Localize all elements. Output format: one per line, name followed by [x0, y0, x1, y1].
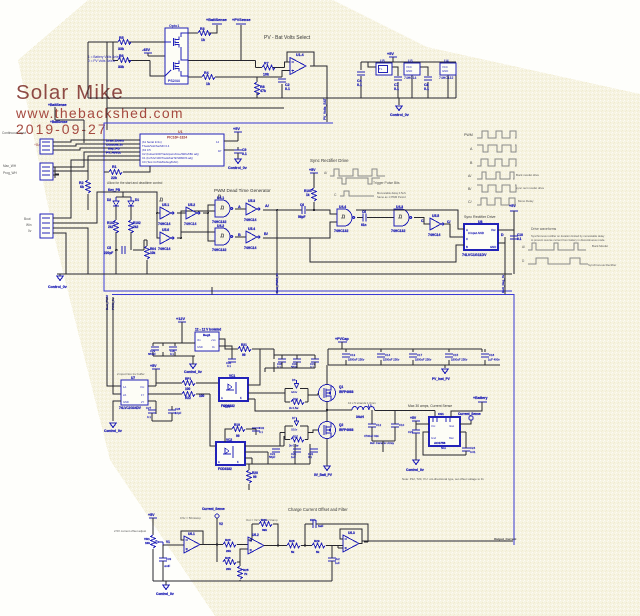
svg-text:Max 30 amps, Current Sense: Max 30 amps, Current Sense [408, 404, 452, 408]
power +5V PIC [233, 127, 242, 132]
svg-text:C6: C6 [300, 203, 304, 207]
svg-text:U6.2: U6.2 [252, 533, 259, 537]
capacitor C34 feedback [305, 518, 368, 546]
svg-text:0.1: 0.1 [357, 83, 362, 87]
capacitor C2 [278, 79, 290, 91]
svg-text:0.5v = 50m/amp: 0.5v = 50m/amp [180, 516, 201, 520]
IC Reg1 12-12V isolated [195, 328, 221, 352]
svg-text:L1: L1 [368, 404, 372, 408]
svg-text:C27: C27 [146, 406, 152, 410]
capacitor C17 [409, 353, 432, 362]
svg-text:Control_0v: Control_0v [406, 468, 424, 472]
svg-text:IRFP4668: IRFP4668 [339, 390, 354, 394]
nand U4.1 [212, 196, 233, 224]
inverter U5.3 [244, 199, 260, 222]
IC U3 74HC14 [404, 59, 420, 80]
svg-text:Control_0v: Control_0v [48, 285, 67, 289]
svg-text:C10: C10 [399, 423, 405, 427]
svg-text:A: A [218, 460, 220, 464]
junction V2 [216, 543, 218, 545]
svg-text:R5: R5 [119, 36, 124, 40]
wire R6 row [113, 42, 165, 76]
junction R105 [313, 209, 315, 211]
svg-text:U4.4: U4.4 [339, 205, 346, 209]
connector J1 [40, 139, 59, 154]
svg-text:Buck Mosfet: Buck Mosfet [592, 244, 608, 248]
power +PVCap [335, 337, 349, 349]
resistor R25 [238, 566, 249, 581]
svg-text:R7: R7 [264, 62, 269, 66]
svg-text:to prevent reverse current fro: to prevent reverse current from battery … [531, 238, 605, 242]
gate network Q2 loop [280, 426, 318, 446]
svg-text:Synchronous Rectifier: Synchronous Rectifier [588, 263, 616, 267]
resistor R3 [198, 27, 211, 42]
inverter U5.6 [158, 228, 174, 251]
svg-text:+Battery: +Battery [473, 396, 487, 400]
svg-text:U1: U1 [178, 130, 183, 134]
connector J2 [40, 163, 59, 180]
svg-text:74HC14: 74HC14 [244, 246, 257, 250]
svg-text:74HC132: 74HC132 [391, 229, 405, 233]
svg-text:V2: V2 [219, 522, 223, 526]
inverter U5.5 [428, 214, 444, 237]
svg-text:C6: C6 [362, 210, 366, 214]
svg-text:0.1: 0.1 [242, 152, 247, 156]
svg-text:10pF: 10pF [175, 411, 182, 415]
resistor R105 [304, 173, 317, 210]
svg-text:1k: 1k [306, 193, 310, 197]
label Bout Win 0v [24, 217, 32, 233]
ground Control_0v rail left [48, 276, 67, 289]
wire +5V rail [361, 57, 456, 62]
junction L1 out [326, 409, 328, 411]
svg-text:U3: U3 [408, 59, 413, 63]
svg-text:Key_PB: Key_PB [108, 188, 121, 192]
resistor R26 [223, 549, 248, 571]
wire reg to R21 [182, 339, 238, 359]
resistor R22 [182, 392, 216, 447]
wire U8 A input [356, 210, 464, 229]
waveform PWM [477, 131, 516, 138]
svg-text:U1.4: U1.4 [296, 53, 304, 57]
svg-text:C17: C17 [417, 353, 423, 357]
wire diode tops [116, 192, 131, 197]
labels left of PIC [106, 139, 124, 155]
svg-text:Current_Sense: Current_Sense [458, 412, 481, 416]
svg-text:12→12 V Isolated: 12→12 V Isolated [195, 328, 221, 332]
resistor R6 [118, 54, 131, 69]
svg-text:0.1: 0.1 [424, 87, 429, 91]
svg-text:2Y: 2Y [141, 400, 144, 404]
capacitor C8 [424, 77, 432, 91]
svg-text:B: B [466, 245, 468, 249]
svg-text:1k: 1k [206, 82, 210, 86]
svg-text:C18: C18 [489, 353, 495, 357]
schmitt mark U5.1 [159, 198, 163, 201]
svg-text:U6.3: U6.3 [348, 531, 355, 535]
wire gnd drop left [59, 274, 61, 276]
capacitor C37 [310, 359, 319, 369]
wire VC1 out to gates [248, 393, 327, 411]
svg-text:Batt_Neg_0v: Batt_Neg_0v [501, 274, 505, 293]
svg-text:U5.6: U5.6 [162, 228, 169, 232]
IC VC2 FOD3182 [216, 438, 245, 471]
wire U4.4 out to C6b [357, 213, 394, 222]
svg-text:C0 (Test CsTick/Debug/DAC): C0 (Test CsTick/Debug/DAC) [142, 160, 178, 164]
svg-text:D1: D1 [135, 198, 139, 202]
svg-text:U5.2: U5.2 [188, 203, 195, 207]
svg-text:U5: U5 [380, 59, 385, 63]
junction dots [115, 209, 278, 251]
ground Control_0v top [390, 106, 409, 117]
svg-text:+5V: +5V [150, 364, 157, 368]
svg-text:Trigger Pulse Bits: Trigger Pulse Bits [373, 181, 400, 185]
inverter U5.2 [184, 203, 200, 226]
wire opamp out down PV_Volts_BAT [314, 66, 327, 122]
svg-text:D7: D7 [292, 416, 296, 420]
resistor R16 gate [289, 397, 304, 410]
op-amp U1.4 [290, 53, 306, 75]
svg-text:GND: GND [197, 345, 203, 349]
resistor RP1 [182, 377, 219, 391]
svg-text:Control_0v: Control_0v [390, 113, 409, 117]
svg-text:74HC14: 74HC14 [158, 222, 171, 226]
svg-text:VC2: VC2 [226, 438, 232, 442]
svg-text:74HC14: 74HC14 [244, 218, 257, 222]
resistor R1 22k [104, 165, 150, 180]
wire U5.5 to U8 [444, 224, 464, 237]
svg-text:+5V: +5V [410, 416, 417, 420]
svg-text:100: 100 [199, 394, 205, 398]
svg-text:GND: GND [123, 400, 129, 404]
svg-text:Control_0v: Control_0v [156, 592, 174, 596]
svg-text:-45V: -45V [142, 48, 150, 52]
svg-text:ACS758: ACS758 [434, 441, 446, 445]
optocoupler Opto1 PS2/44 [165, 28, 188, 84]
svg-text:R3: R3 [200, 27, 205, 31]
wire U4.1 A out [235, 208, 246, 210]
wire C2 node [281, 84, 283, 98]
svg-text:Vcc: Vcc [491, 228, 496, 232]
svg-text:74HC132: 74HC132 [334, 229, 348, 233]
svg-text:0.1: 0.1 [170, 352, 174, 356]
svg-text:C14: C14 [385, 353, 391, 357]
wire opto out2 row [188, 25, 256, 61]
svg-text:1500uF 250v: 1500uF 250v [383, 358, 400, 362]
svg-text:74HC14: 74HC14 [158, 247, 171, 251]
svg-text:3v 0.5w: 3v 0.5w [289, 444, 298, 448]
power +12V [176, 317, 186, 343]
svg-text:1uF: 1uF [318, 524, 324, 528]
transistor Q1 mosfet [318, 365, 354, 421]
svg-text:PWM: PWM [464, 133, 473, 137]
svg-text:+5V: +5V [148, 513, 155, 517]
svg-text:2k2: 2k2 [133, 225, 139, 229]
svg-text:74LVC2G34DV: 74LVC2G34DV [119, 406, 142, 410]
capacitor C22 [269, 449, 280, 459]
inductor L1 [327, 404, 435, 419]
resistor R21 [238, 343, 274, 357]
connector J3 [40, 214, 59, 238]
svg-text:R22: R22 [185, 396, 191, 400]
svg-text:R1: R1 [112, 165, 117, 169]
svg-text:+PVSense: +PVSense [232, 18, 250, 22]
svg-text:GND: GND [442, 69, 448, 73]
svg-text:C: C [466, 237, 468, 241]
svg-text:Note: P12, T20, If U: uni-dire: Note: P12, T20, If U: uni-directional ty… [402, 477, 484, 481]
resistor R28 [287, 539, 312, 554]
svg-text:R17: R17 [293, 435, 298, 439]
svg-text:0.1: 0.1 [285, 87, 290, 91]
svg-text:Vin: Vin [197, 338, 201, 342]
wire U5.6 out cross [177, 211, 215, 238]
svg-text:C12: C12 [376, 423, 382, 427]
svg-text:Reg1: Reg1 [203, 333, 211, 337]
waveform A/ [477, 172, 514, 179]
power label +BattSense [206, 18, 227, 24]
resistor R2 [79, 171, 91, 210]
svg-text:IRFP4668: IRFP4668 [339, 428, 354, 432]
svg-text:0.1: 0.1 [227, 364, 231, 368]
svg-text:50A: 50A [441, 446, 446, 450]
op-amp U6.3 [338, 529, 513, 552]
wire U5 C4 [361, 62, 398, 98]
capacitor C33 [159, 555, 172, 581]
wire -45V branches [148, 55, 165, 57]
svg-text:TL: TL [379, 67, 383, 71]
svg-text:A/: A/ [522, 245, 525, 249]
svg-text:99: 99 [242, 353, 246, 357]
svg-text:+12V: +12V [176, 317, 185, 321]
svg-text:CS1: CS1 [438, 412, 444, 416]
svg-text:1A: 1A [123, 385, 126, 389]
IC U5 [376, 59, 392, 75]
wire resistor bottoms to C5 [116, 232, 144, 250]
resistor R104 [144, 240, 156, 259]
wire control rail long [57, 273, 512, 275]
capacitor C21 [291, 449, 301, 459]
svg-text:A/: A/ [324, 171, 327, 175]
svg-text:2A: 2A [123, 393, 126, 397]
nand U4.2 [212, 224, 233, 252]
svg-text:K: K [237, 460, 239, 464]
wire R8 node [256, 77, 258, 98]
wire connector bus to PIC [55, 140, 133, 274]
op-amp U6.1 [181, 531, 217, 553]
svg-text:74HC14: 74HC14 [184, 222, 197, 226]
svg-text:IIout: IIout [449, 424, 454, 428]
label -45V [142, 48, 152, 53]
capacitor C15 [445, 353, 468, 362]
svg-text:99: 99 [236, 434, 240, 438]
junction U6.2 out [277, 544, 279, 546]
resistor R102 [107, 220, 119, 233]
note battery volts select [88, 55, 121, 63]
power +5V CS [410, 416, 466, 455]
wire key_pb row to diodes [108, 192, 160, 213]
svg-text:A: A [466, 228, 468, 232]
svg-text:10k: 10k [145, 541, 150, 545]
svg-text:C23: C23 [408, 430, 414, 434]
svg-text:1uF: 1uF [335, 561, 340, 565]
wire U8 B input from B [310, 238, 464, 262]
wire VC2 bottom rail [246, 444, 310, 464]
zener D6 [291, 378, 299, 394]
svg-text:www.thebackshed.com: www.thebackshed.com [15, 105, 184, 121]
svg-text:Charge Current Offset and Filt: Charge Current Offset and Filter [288, 507, 348, 512]
svg-text:0.01: 0.01 [470, 450, 476, 454]
svg-text:PIC16F-1824: PIC16F-1824 [167, 136, 187, 140]
svg-text:PV_Inst_PV: PV_Inst_PV [432, 377, 451, 381]
svg-text:R29: R29 [314, 539, 320, 543]
wire U7 vcc [113, 380, 182, 421]
svg-text:R19: R19 [234, 423, 240, 427]
svg-text:1k: 1k [201, 38, 205, 42]
svg-text:V1: V1 [166, 540, 170, 544]
svg-text:U4: U4 [444, 59, 449, 63]
wire reg rail [153, 343, 195, 356]
svg-text:Buck mosfet drive: Buck mosfet drive [516, 173, 539, 177]
ground 0V_Batt_PV [314, 466, 333, 477]
IC VC1 FOD3182 [219, 374, 248, 408]
svg-text:sync rect mosfet drive: sync rect mosfet drive [516, 186, 545, 190]
svg-text:47k: 47k [260, 89, 266, 93]
svg-text:PWM Dead Time Generator: PWM Dead Time Generator [214, 188, 271, 193]
svg-text:0.1: 0.1 [147, 415, 151, 419]
svg-text:U5.5: U5.5 [432, 214, 439, 218]
IC U8 3 input AND [462, 220, 498, 257]
svg-text:C15: C15 [453, 353, 459, 357]
capacitor C13 [342, 353, 365, 362]
IC U4 74HC132 [439, 59, 456, 80]
svg-text:0.1: 0.1 [308, 455, 312, 459]
capacitor C36b [328, 546, 340, 582]
power +5V VR1 [148, 513, 157, 535]
svg-text:Bout: Bout [24, 217, 31, 221]
IC U7 buffer [119, 376, 148, 410]
svg-text:R28: R28 [289, 539, 295, 543]
svg-text:U7: U7 [131, 376, 135, 380]
wire second row to PIC area [107, 42, 284, 130]
svg-text:C5: C5 [107, 246, 111, 250]
capacitor C33b [291, 359, 301, 369]
transistor Q2 mosfet [319, 421, 354, 466]
svg-text:Mono Delay: Mono Delay [518, 199, 534, 203]
svg-text:U8: U8 [478, 220, 482, 224]
wire U4.3 out to U5.5 [414, 218, 430, 225]
svg-text:Vcc: Vcc [140, 385, 145, 389]
wire bottom rail [153, 580, 332, 581]
svg-text:C13: C13 [350, 353, 356, 357]
wire R4 row [188, 71, 290, 78]
svg-text:74HC132: 74HC132 [212, 248, 226, 252]
ground Control_0v VR1 [156, 581, 174, 596]
gate network Q1 loop [285, 389, 318, 403]
capacitor C32 [252, 426, 265, 434]
capacitor C9 [234, 148, 247, 159]
svg-text:Batt_PWM_0v: Batt_PWM_0v [275, 273, 279, 293]
capacitor C27 [146, 406, 156, 419]
svg-text:3 input AND: 3 input AND [468, 231, 485, 235]
svg-text:680uF: 680uF [148, 352, 156, 356]
capacitor C30 0.1 [169, 347, 177, 356]
svg-text:20k: 20k [226, 567, 231, 571]
IC U1 PIC16F-1824 [133, 130, 238, 166]
svg-text:R23: R23 [225, 538, 231, 542]
svg-text:1uF: 1uF [291, 455, 296, 459]
svg-text:6k: 6k [80, 185, 84, 189]
svg-text:C/: C/ [468, 200, 472, 204]
inverter U5.1 [158, 203, 174, 226]
svg-text:+BattSense: +BattSense [50, 120, 68, 124]
resistor R7 [262, 62, 275, 77]
svg-text:Sync Rectifier Drive: Sync Rectifier Drive [464, 215, 496, 219]
wire opamp feedback [287, 52, 314, 66]
svg-text:R26: R26 [225, 556, 231, 560]
svg-text:+BattSense: +BattSense [48, 103, 67, 107]
svg-text:39k: 39k [262, 528, 267, 532]
svg-text:GND: GND [490, 245, 496, 249]
capacitor C24 [460, 432, 476, 455]
svg-text:22k: 22k [111, 176, 117, 180]
svg-text:U6.1: U6.1 [188, 532, 195, 536]
capacitor C6a series [298, 203, 305, 219]
svg-text:A: A [221, 396, 223, 400]
svg-text:0.1: 0.1 [517, 237, 522, 241]
svg-text:U4.3: U4.3 [396, 205, 403, 209]
svg-text:Control_0v: Control_0v [184, 370, 202, 374]
power +12V VC1 [223, 349, 260, 409]
svg-text:7k: 7k [244, 572, 248, 576]
svg-text:Sync Rectifier Drive: Sync Rectifier Drive [310, 158, 349, 163]
svg-text:Control_0v: Control_0v [104, 429, 122, 433]
capacitor C23 [408, 430, 420, 434]
wire R7 to opamp minus [272, 62, 290, 68]
svg-text:74LVC1G11DV: 74LVC1G11DV [462, 253, 487, 257]
svg-text:9uF Ceramic Array: 9uF Ceramic Array [370, 441, 395, 445]
capacitor C7 [394, 77, 402, 91]
svg-text:10k: 10k [263, 73, 269, 77]
svg-text:33k: 33k [118, 47, 124, 51]
svg-text:Opto1: Opto1 [169, 24, 179, 28]
svg-text:U5.1: U5.1 [162, 203, 169, 207]
capacitor C35 [226, 359, 236, 368]
power +5V mono [309, 168, 318, 173]
schmitt mark U4.1 [217, 195, 221, 198]
svg-text:G10v: G10v [291, 390, 298, 394]
inverter U5.4 [244, 227, 260, 250]
svg-text:A: A [238, 205, 241, 209]
pin Current_Sense bottom [202, 507, 225, 562]
wire long 0v rail top [88, 97, 456, 99]
resistor R20 [247, 464, 259, 490]
note synchronous rectifier [531, 234, 605, 242]
svg-text:220pF: 220pF [104, 251, 113, 255]
svg-text:0 = PV Volts Select: 0 = PV Volts Select [88, 59, 115, 63]
svg-text:10 x 5 strands 1.6mm: 10 x 5 strands 1.6mm [348, 401, 376, 405]
svg-text:Output_Current: Output_Current [494, 537, 516, 541]
power +5V U7 [150, 364, 160, 380]
svg-text:56pF: 56pF [269, 455, 276, 459]
svg-text:GND: GND [406, 69, 412, 73]
svg-text:34uH: 34uH [356, 415, 364, 419]
waveform B/ [477, 185, 516, 192]
wire U5.2 out cross [203, 205, 215, 241]
svg-text:1800uF 250v: 1800uF 250v [451, 358, 468, 362]
svg-text:Drive waveforms: Drive waveforms [531, 227, 557, 231]
svg-text:VC1: VC1 [229, 374, 235, 378]
svg-text:5k: 5k [316, 550, 320, 554]
